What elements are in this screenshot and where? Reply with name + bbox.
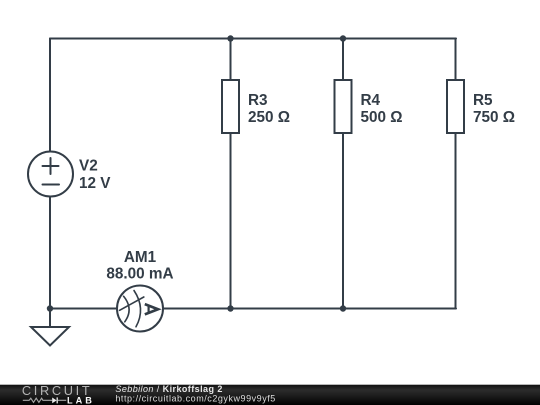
- node junction bottom R4: [340, 305, 346, 311]
- wire bottom rail left segment: [50, 308, 117, 310]
- label V2 value: [79, 158, 111, 193]
- resistor R3: [222, 39, 239, 309]
- wire top rail: [50, 38, 456, 40]
- wire left rail upper: [49, 39, 51, 152]
- resistor R4: [335, 39, 352, 309]
- resistor R5: [447, 39, 464, 309]
- wire left rail lower: [49, 197, 51, 309]
- svg-text:88.00 mA: 88.00 mA: [106, 266, 173, 283]
- svg-text:R3: R3: [248, 92, 268, 109]
- svg-text:Sebbilon / Kirkoffslag 2: Sebbilon / Kirkoffslag 2: [115, 384, 222, 394]
- svg-text:250 Ω: 250 Ω: [248, 109, 290, 126]
- label R3 value: [248, 92, 290, 126]
- footer bar: [0, 384, 540, 405]
- svg-text:12 V: 12 V: [79, 175, 111, 192]
- voltage source V2: [28, 152, 73, 197]
- node junction bottom R3: [227, 305, 233, 311]
- node junction ground: [47, 305, 53, 311]
- label R5 value: [473, 92, 515, 126]
- svg-text:R4: R4: [361, 92, 381, 109]
- svg-text:R5: R5: [473, 92, 493, 109]
- label AM1 value: [106, 249, 173, 283]
- svg-text:LAB: LAB: [67, 396, 95, 405]
- svg-text:AM1: AM1: [124, 249, 157, 266]
- svg-text:http://circuitlab.com/c2gykw99: http://circuitlab.com/c2gykw99v9yf5: [115, 394, 275, 404]
- label R4 value: [361, 92, 403, 126]
- node junction top R3: [227, 35, 233, 41]
- CircuitLab logo resistor zigzag: [23, 398, 52, 402]
- wire bottom rail mid segment: [164, 308, 457, 310]
- svg-text:V2: V2: [79, 158, 98, 175]
- ammeter AM1: [117, 286, 163, 332]
- ground: [31, 309, 69, 346]
- svg-text:750 Ω: 750 Ω: [473, 109, 515, 126]
- svg-text:500 Ω: 500 Ω: [361, 109, 403, 126]
- node junction top R4: [340, 35, 346, 41]
- CircuitLab logo diode: [52, 397, 66, 403]
